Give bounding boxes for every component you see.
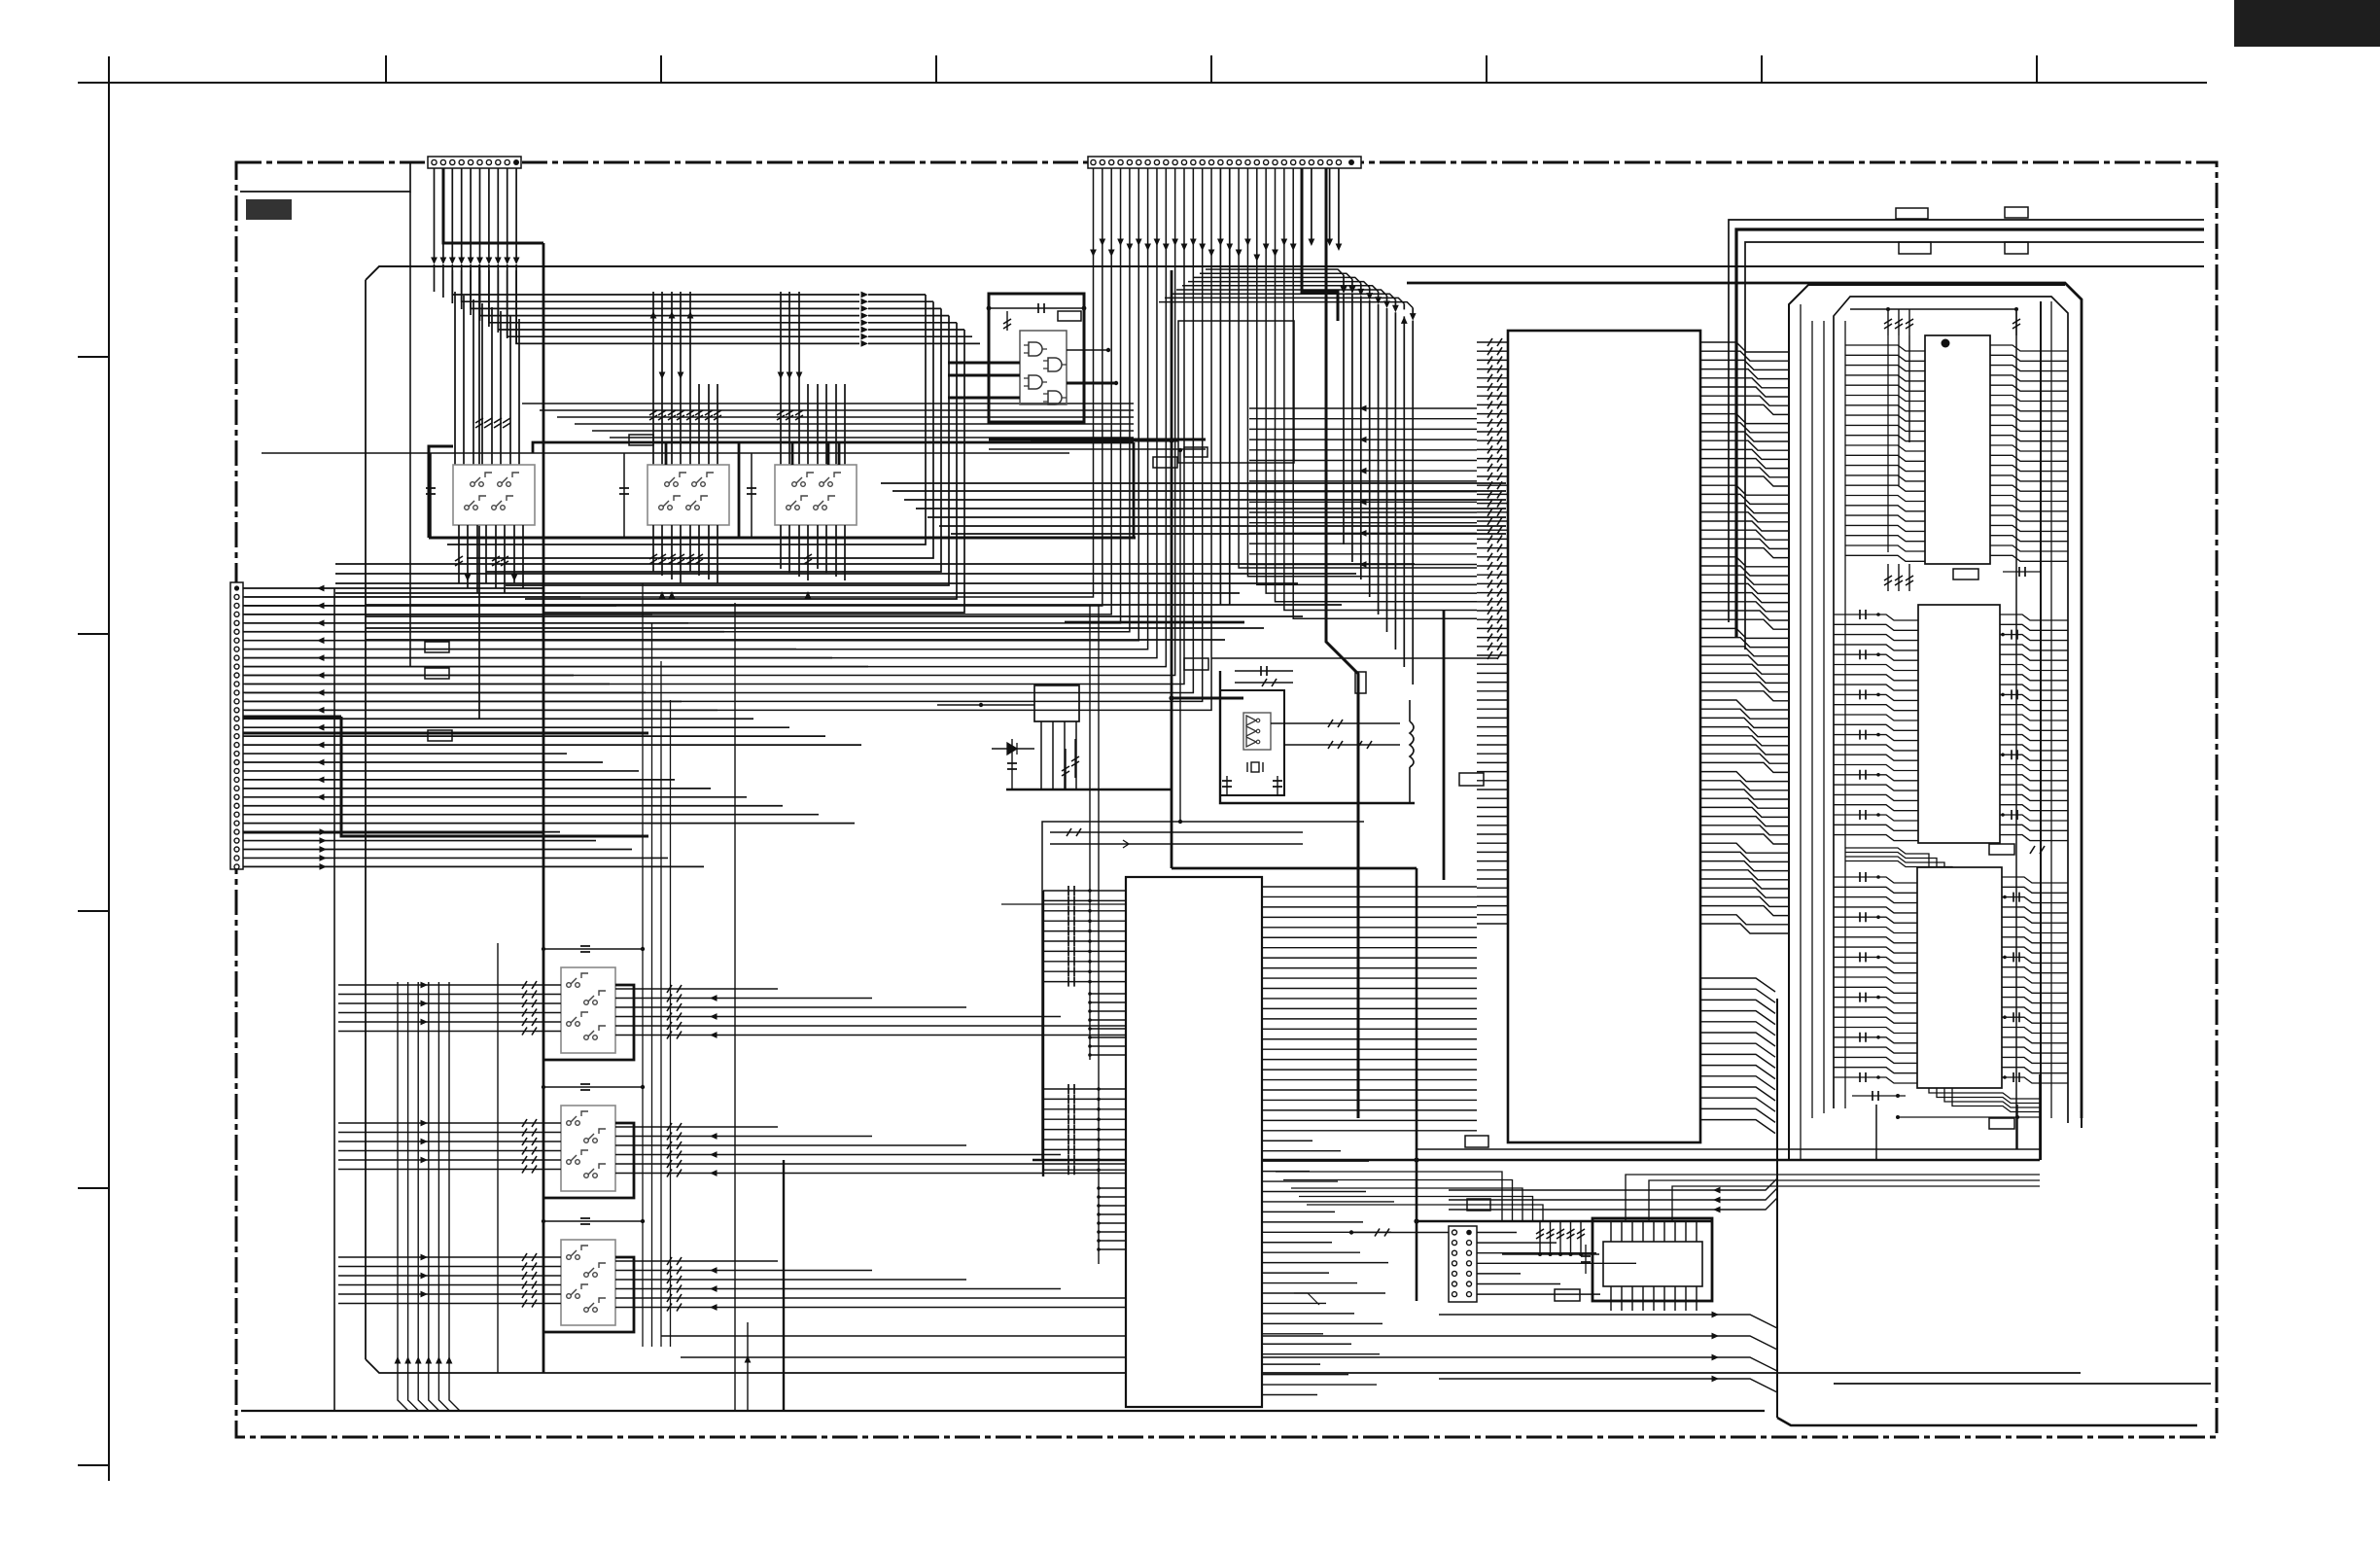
connector J1 — [428, 157, 521, 168]
label box TR-3 — [2005, 207, 2028, 218]
wire bus mid-long — [881, 483, 1506, 534]
wire bus relay1 coils — [455, 292, 519, 465]
relay rail thick drop 4 — [827, 442, 830, 465]
res Q3 — [1071, 739, 1079, 778]
IC sub micro right pins — [1262, 887, 1477, 1395]
wire driver top bus — [1414, 1218, 1712, 1223]
logic IC U-gate body — [1020, 331, 1067, 404]
relay rail thick drop 1 — [665, 442, 668, 465]
connector J2 — [1088, 157, 1361, 168]
cap X-top — [1235, 666, 1293, 676]
label box B2 — [1467, 1199, 1490, 1211]
label box mid — [1184, 658, 1208, 670]
frame left tick 4 — [78, 1187, 109, 1189]
inverter C — [1246, 737, 1260, 747]
wire bus mid-long2 — [335, 564, 1415, 593]
relay RY6 — [561, 1240, 615, 1325]
relay RY2 — [647, 465, 729, 525]
gate U-B — [1043, 358, 1067, 371]
label box L2 — [425, 668, 449, 679]
inverter A — [1246, 716, 1260, 725]
relay RY5 — [561, 1106, 615, 1191]
net line TR-3 — [1745, 242, 2204, 650]
cap relay1-left — [426, 453, 436, 538]
relay upper bus thick — [533, 442, 997, 453]
connector CN-ctrl — [1449, 1226, 1477, 1302]
wire bottom long thick — [1032, 1157, 2040, 1162]
label box IC5 — [1989, 1118, 2014, 1129]
wire bus ctrl-down — [1159, 269, 1417, 685]
wire bus relay1 contacts-out — [455, 525, 523, 593]
wire CN-left thick3 — [243, 831, 543, 834]
res X-top2 — [1235, 679, 1293, 686]
IC driver pins — [1611, 1221, 1697, 1311]
wire CN-left vline2 — [365, 671, 367, 1359]
inductor L1 — [1410, 700, 1414, 803]
IC array-2 body — [1918, 605, 2000, 843]
label box TR-2 — [1899, 242, 1931, 254]
wire bus bl-verticals — [395, 982, 460, 1411]
wire bus RY6 left — [338, 1253, 1249, 1312]
label box B1 — [1465, 1136, 1488, 1147]
frame top tick 3 — [935, 55, 937, 83]
resistor bank bottom — [1536, 1221, 1585, 1256]
cap IC3 right — [2003, 567, 2040, 577]
wire v-756 — [734, 603, 736, 1411]
gate U-C — [1024, 375, 1047, 389]
diode Q1 — [992, 743, 1034, 755]
bottom section outline — [1042, 822, 1364, 1160]
label box midblock — [1184, 447, 1207, 457]
wire h-868 — [1050, 840, 1303, 848]
wire CN-left thick2 — [243, 732, 648, 735]
wire bus ctrl-in arrows — [1449, 1178, 1777, 1212]
wire bus relay3 coils — [777, 292, 845, 465]
frame left tick 3 — [78, 910, 109, 912]
relay RY3 — [775, 465, 857, 525]
IC array-1 body — [1925, 335, 1990, 564]
wire harness top rail — [1850, 307, 2018, 311]
wire CN-left thickbox — [341, 717, 648, 836]
wire bus into IC1 left — [1249, 405, 1477, 568]
wire bus v-660s — [643, 583, 671, 1347]
label box TR-4 — [2005, 242, 2028, 254]
label box gate — [1058, 311, 1081, 321]
relay RY6 frame — [544, 1257, 634, 1332]
wire artery bottom thick — [1777, 1418, 2197, 1425]
bottom-right return line — [1834, 1383, 2211, 1385]
wire bus relay3 contacts-out — [781, 525, 845, 599]
block outline mid — [1178, 321, 1294, 463]
relay RY4 frame — [544, 985, 634, 1060]
relay rail thick drop 3 — [791, 442, 794, 465]
wire v-1930 — [1875, 1105, 1877, 1160]
net line TR-1 — [1729, 220, 2204, 622]
vertical label box — [1355, 672, 1366, 693]
wire crystal entry thick — [1172, 697, 1243, 700]
relay RY1 frame — [429, 446, 453, 538]
resistors above IC3 — [1884, 309, 2020, 335]
IC main micro right pins low — [1700, 978, 1775, 1134]
wire J1 thick step — [443, 168, 543, 243]
IC main micro right pins — [1700, 342, 1789, 933]
transistor Q-reg body — [1034, 685, 1079, 721]
relay RY5 frame — [544, 1123, 634, 1198]
wire crystal top rail — [1211, 657, 1497, 659]
res X-right2 — [1284, 741, 1400, 749]
label box TR-1 — [1896, 208, 1928, 219]
wire bus J1-to-right — [452, 270, 980, 347]
wire crystal frame — [1220, 671, 1415, 803]
IC sub micro left pins — [1043, 886, 1126, 1251]
res X-right1 — [1271, 720, 1400, 727]
wire thick mid-h — [1065, 621, 1244, 624]
IC sub micro body — [1126, 877, 1262, 1407]
cap relay12 — [619, 453, 629, 538]
IC sub micro left bus — [1043, 605, 1099, 1264]
wire v-422 — [409, 192, 411, 666]
wire thick mid-v — [1443, 611, 1446, 880]
net line TR-2 thick — [1736, 229, 2204, 637]
wire v-2075b — [2016, 1105, 2018, 1149]
wire gate inputs — [948, 363, 1020, 398]
relay rail thick drop 4b — [838, 442, 841, 465]
label box L-coil — [1459, 773, 1484, 786]
cap Q1 — [1007, 739, 1017, 790]
wire gate bus bottom2 — [989, 448, 1206, 450]
relay RY1 — [453, 465, 535, 525]
connector CN-left — [230, 582, 243, 869]
crystal X1 — [1247, 762, 1263, 772]
harness outline inner — [1834, 297, 2068, 1123]
harness outline outer-right — [2081, 299, 2082, 1128]
IC array-1 pin1 dot — [1942, 339, 1950, 348]
IC main micro body — [1508, 331, 1700, 1142]
relay bus thick — [429, 537, 1136, 540]
cap X-b — [1273, 776, 1282, 795]
IC driver body — [1603, 1242, 1702, 1286]
cap RY4 top — [542, 946, 645, 952]
gate U-D — [1043, 391, 1067, 404]
wire bus IC6-right steps — [1626, 1175, 2040, 1221]
wire bus J1 drops — [431, 168, 519, 344]
res Q2 — [1062, 749, 1069, 790]
wire v-769 arrow — [745, 1322, 752, 1411]
IC array-3 bottom fan — [1929, 1088, 2040, 1112]
inverter B — [1246, 726, 1260, 736]
cap RY5 top — [542, 1084, 645, 1090]
cap gate-top — [987, 303, 1087, 313]
wire bus relay feed — [522, 404, 1134, 438]
drawing frame vertical ruler — [108, 56, 110, 1481]
label box n1 — [1153, 457, 1177, 468]
frame left tick 5 — [78, 1464, 109, 1466]
wire bus gate-left bends — [447, 295, 964, 613]
logic IC U-gate frame — [989, 294, 1084, 422]
wire thick v-1205 — [1169, 270, 1173, 868]
frame top tick 7 — [2036, 55, 2038, 83]
wire thick into midblock — [1031, 439, 1178, 443]
wire bus RY5 left — [338, 1119, 1249, 1177]
frame top tick 1 — [385, 55, 387, 83]
wire gate out right — [1067, 348, 1118, 385]
wire J2 thick step A — [1302, 168, 1338, 321]
relay RY4 — [561, 967, 615, 1053]
label box B3 — [1555, 1289, 1580, 1301]
sub-board outline left edge — [365, 280, 367, 1359]
pcb dash-dot border — [236, 162, 2217, 1437]
IC array-3 pins — [1834, 872, 2068, 1083]
wire gate bus bottom — [989, 439, 1206, 441]
harness inner verticals — [1801, 301, 2051, 1160]
cap IC4 right mark — [2030, 846, 2045, 854]
cap X-a — [1222, 776, 1232, 795]
label box L3 — [428, 730, 452, 741]
IC array-2 bottom fan — [1845, 848, 1952, 867]
cap h-1127 — [1852, 1091, 1906, 1101]
relay rail thick drop 2 — [738, 442, 741, 538]
wire bus relay2 coils — [649, 292, 721, 465]
wire bus res-bank steps — [1276, 1172, 1543, 1221]
label box RY2 — [629, 435, 653, 445]
wire v-2098 — [2039, 1074, 2041, 1160]
frame top tick 4 — [1210, 55, 1212, 83]
wire bus CN-ctrl fan — [1477, 1233, 1636, 1295]
sub-board outline top edge — [366, 266, 2204, 280]
wire right-pins IC2 to bottom — [1294, 1293, 1319, 1305]
board name black label — [246, 199, 292, 220]
IC array-2 pins — [1834, 610, 2068, 841]
wire h-856 — [1050, 828, 1303, 836]
wire J1 v-522 — [478, 264, 480, 720]
wire thick v-559 long — [542, 243, 545, 1373]
wire res bank rail — [1502, 1253, 1599, 1255]
IC array-1 pins — [1845, 345, 2068, 561]
label box IC4 — [1989, 844, 2014, 855]
sheet corner black box — [2234, 0, 2380, 47]
resistor gate R — [1003, 311, 1011, 331]
frame top tick 5 — [1486, 55, 1487, 83]
IC array-3 body — [1917, 867, 2002, 1088]
gate U-A — [1024, 342, 1047, 356]
wire h-1149 — [1896, 1115, 2040, 1119]
ground bus mid — [1006, 789, 1172, 791]
wire CN-ctrl left res — [1349, 1229, 1449, 1237]
bottom bus line — [241, 1410, 1765, 1412]
sub-board outline bottom join — [366, 1359, 2081, 1373]
label box L1 — [425, 642, 449, 652]
wire bottom 1182 — [1417, 1148, 2040, 1150]
wire v-1214 — [1178, 448, 1182, 824]
crystal block outline — [1220, 690, 1284, 795]
wire bus RY4 left — [338, 981, 1249, 1039]
frame left tick 2 — [78, 633, 109, 635]
wire net h-930 — [1001, 903, 1126, 905]
frame left tick 1 — [78, 356, 109, 358]
IC driver loop frame — [1592, 1218, 1712, 1301]
harness outline outer — [1789, 285, 2065, 1160]
resistors below IC3 — [1884, 564, 1913, 591]
cap bottom — [1581, 1245, 1591, 1274]
wire reg left — [937, 703, 1034, 707]
wire v-512 — [497, 943, 499, 1373]
inverter bank body — [1243, 713, 1271, 750]
Q-reg legs — [1041, 721, 1076, 790]
relay mid rail — [262, 452, 1069, 454]
wire bus mid-long3 — [366, 605, 1342, 640]
wire bus J2 drops — [245, 168, 1477, 710]
wire J2 thick step B — [1326, 168, 1358, 1118]
IC3 side verticals — [1888, 335, 1909, 552]
net line harness-top thick — [1407, 283, 2082, 1118]
cap relay23 — [747, 453, 756, 538]
IC main micro left pins — [1477, 338, 1508, 924]
relay rail thick drop 5 — [1133, 442, 1136, 538]
wire CN-left vline1 — [333, 588, 335, 1411]
wire artery v-1828 — [1776, 999, 1778, 1418]
wire bus ctrl-out arrows — [661, 1312, 1777, 1392]
label box IC3 — [1953, 569, 1978, 579]
wire v-1457 thick — [1416, 868, 1418, 1301]
wire bus relay2 contacts-out — [649, 525, 717, 599]
wire CN-left thick1 — [243, 716, 341, 719]
frame top tick 2 — [660, 55, 662, 83]
wire label-to-border — [240, 163, 410, 192]
wire v-806 thick — [783, 1160, 785, 1411]
relay upper bus right thick — [997, 441, 1134, 444]
wire bus CN-left fanout — [243, 585, 868, 870]
cap RY6 top — [542, 1218, 645, 1224]
frame top tick 6 — [1761, 55, 1763, 83]
drawing frame horizontal ruler — [78, 82, 2207, 84]
wire thick h-893 — [1172, 867, 1417, 870]
